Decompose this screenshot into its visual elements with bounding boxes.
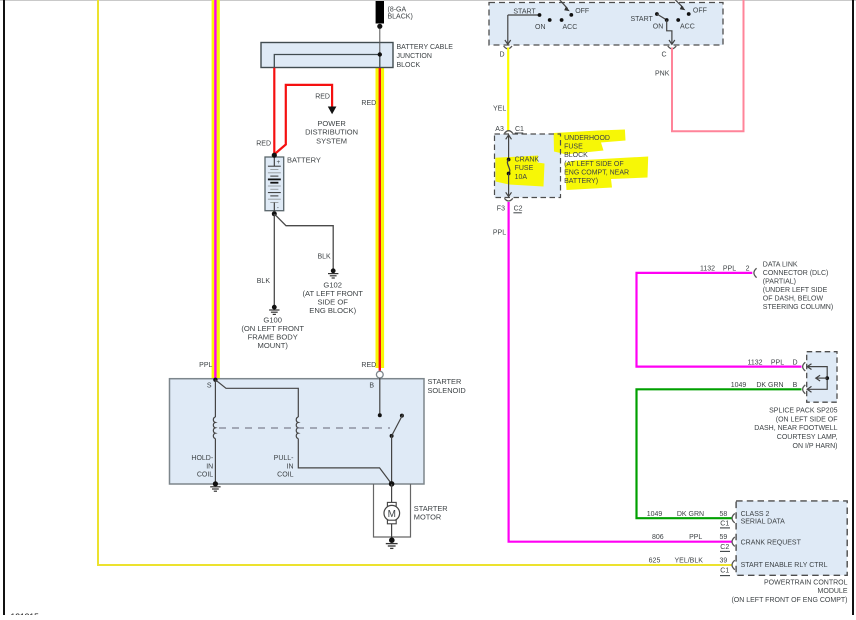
svg-text:STARTER: STARTER (428, 377, 462, 386)
hold-in coil (213, 417, 215, 439)
DLC connector arc (754, 268, 757, 277)
svg-text:START: START (513, 9, 536, 16)
splice pack internal bus (808, 367, 828, 390)
svg-text:2: 2 (746, 266, 750, 273)
wire YEL/BLK 625 from off-page (left vertical + bottom run) (98, 0, 732, 565)
svg-text:MODULE: MODULE (818, 588, 848, 595)
junction dot on bus (378, 52, 382, 56)
svg-text:DISTRIBUTION: DISTRIBUTION (305, 128, 358, 137)
svg-text:PULL-: PULL- (274, 455, 295, 462)
svg-text:ENG BLOCK): ENG BLOCK) (309, 306, 356, 315)
svg-text:POWER: POWER (317, 119, 346, 128)
svg-text:STEERING COLUMN): STEERING COLUMN) (763, 304, 833, 311)
svg-text:59: 59 (720, 534, 728, 541)
PCM pin 39 connector arc (732, 560, 735, 569)
wire hold-in coil to ground (214, 439, 216, 484)
ground G100 (269, 305, 279, 315)
ignition switch left section (505, 0, 573, 44)
svg-text:HOLD-: HOLD- (191, 455, 213, 462)
wire BLK battery to G100 (273, 214, 275, 305)
connector arc above fuse block (C1) (504, 131, 512, 134)
svg-text:OF DASH, BELOW: OF DASH, BELOW (763, 296, 824, 303)
starter solenoid box (170, 379, 425, 484)
svg-text:CONNECTOR (DLC): CONNECTOR (DLC) (763, 270, 829, 277)
wire RED branch to power distribution (275, 85, 332, 154)
splice connector arc pin B (803, 385, 806, 394)
svg-text:MOUNT): MOUNT) (258, 341, 289, 350)
highlight blob over CRANK FUSE 10A (495, 156, 544, 187)
arrow to power distribution system (328, 107, 337, 115)
ignition switch block (489, 3, 723, 46)
splice center tap (816, 375, 829, 381)
PCM pin 58 connector arc (732, 514, 735, 523)
motor ground symbol (386, 544, 398, 549)
fixed contact dot (378, 413, 382, 417)
svg-text:COIL: COIL (197, 472, 213, 479)
svg-text:-: - (277, 205, 279, 212)
battery (265, 157, 284, 212)
underhood fuse block box border (495, 134, 561, 198)
svg-text:1132: 1132 (700, 266, 715, 273)
right page border (852, 0, 854, 615)
svg-text:ON: ON (653, 24, 664, 31)
svg-text:FUSE: FUSE (515, 165, 534, 172)
svg-text:D: D (499, 52, 504, 59)
svg-text:PPL: PPL (771, 359, 784, 366)
svg-text:39: 39 (720, 557, 728, 564)
svg-text:IN: IN (206, 463, 213, 470)
wire PPL 1132 DLC net (637, 273, 802, 367)
svg-text:+: + (277, 159, 281, 166)
splice connector arc pin D (803, 362, 806, 371)
svg-text:RED: RED (361, 100, 376, 107)
svg-text:POWERTRAIN CONTROL: POWERTRAIN CONTROL (764, 579, 848, 586)
PCM pin 59 connector arc (732, 537, 735, 546)
svg-text:S: S (207, 383, 212, 390)
svg-text:PNK: PNK (655, 71, 670, 78)
wire BLK battery to G102 (275, 214, 334, 268)
ring terminal at solenoid B (376, 371, 383, 378)
wire pivot to bottom junction (391, 436, 393, 484)
svg-text:B: B (793, 382, 798, 389)
solenoid S terminal dot (213, 378, 217, 382)
svg-text:M: M (388, 509, 396, 520)
svg-text:PPL: PPL (723, 266, 736, 273)
svg-text:RED: RED (315, 93, 330, 100)
svg-text:ON I/P HARN): ON I/P HARN) (793, 443, 838, 450)
solenoid bottom junction dot (389, 481, 395, 487)
battery positive terminal dot (272, 153, 277, 158)
splice arrow pin D (807, 364, 811, 370)
wire RED highlighted (junction block to solenoid B) (379, 68, 381, 371)
svg-text:START: START (631, 16, 654, 23)
svg-text:(ON LEFT FRONT OF ENG COMPT): (ON LEFT FRONT OF ENG COMPT) (731, 597, 847, 604)
junction block internal bus (274, 55, 380, 68)
svg-text:C2: C2 (720, 544, 729, 551)
svg-text:CRANK: CRANK (515, 156, 540, 163)
ignition switch right section (655, 0, 691, 44)
svg-text:1049: 1049 (647, 511, 663, 518)
left page border (3, 0, 5, 615)
wire PPL fuse to PCM crank request (509, 202, 732, 542)
svg-text:CLASS 2: CLASS 2 (741, 511, 770, 518)
battery cable junction block (261, 43, 393, 68)
underhood fuse block box fill (495, 134, 561, 198)
svg-text:START ENABLE RLY CTRL: START ENABLE RLY CTRL (741, 562, 828, 569)
wire B post to fixed contact (379, 378, 381, 415)
highlight blob over location label (565, 157, 649, 191)
svg-text:C1: C1 (720, 520, 729, 527)
svg-text:(UNDER LEFT SIDE: (UNDER LEFT SIDE (763, 287, 828, 294)
svg-text:IN: IN (287, 463, 294, 470)
wire PNK ignition C off-page (672, 0, 744, 131)
svg-text:RED: RED (361, 362, 376, 369)
svg-text:58: 58 (720, 511, 728, 518)
svg-text:RED: RED (256, 141, 271, 148)
motor ground dot (389, 537, 395, 543)
svg-text:DATA LINK: DATA LINK (763, 262, 798, 269)
8-GA cable terminal dot (377, 24, 382, 29)
svg-text:BLACK): BLACK) (388, 14, 413, 21)
svg-text:ACC: ACC (680, 24, 695, 31)
svg-text:BATTERY CABLE: BATTERY CABLE (397, 44, 454, 51)
svg-text:1132: 1132 (747, 359, 762, 366)
svg-text:(ON LEFT SIDE OF: (ON LEFT SIDE OF (776, 416, 838, 423)
wire PPL highlighted (to solenoid S) (214, 0, 216, 380)
highlighter band over RED wire (376, 68, 385, 368)
svg-text:(AT LEFT SIDE OF: (AT LEFT SIDE OF (564, 161, 624, 168)
battery negative terminal dot (272, 211, 277, 216)
svg-text:PPL: PPL (689, 534, 702, 541)
svg-text:(PARTIAL): (PARTIAL) (763, 279, 796, 286)
svg-text:(8-GA: (8-GA (388, 7, 407, 14)
svg-text:10A: 10A (515, 174, 528, 181)
svg-text:PPL: PPL (199, 362, 212, 369)
starter motor M (384, 502, 400, 523)
svg-text:DASH, NEAR FOOTWELL: DASH, NEAR FOOTWELL (754, 425, 837, 432)
svg-text:BLOCK: BLOCK (397, 62, 421, 69)
svg-text:D: D (792, 359, 797, 366)
PCM box (736, 501, 847, 575)
svg-text:DK GRN: DK GRN (677, 511, 704, 518)
svg-text:F3: F3 (497, 206, 505, 213)
svg-text:COIL: COIL (277, 472, 293, 479)
connector arc below fuse block (C2) (504, 198, 512, 201)
splice pack SP205 box (807, 352, 837, 403)
starter motor bracket (374, 484, 411, 537)
svg-text:SERIAL DATA: SERIAL DATA (741, 519, 786, 526)
svg-text:C1: C1 (515, 126, 524, 133)
svg-text:ENG COMPT, NEAR: ENG COMPT, NEAR (564, 169, 629, 176)
svg-text:OFF: OFF (575, 8, 589, 15)
svg-text:YEL: YEL (493, 106, 506, 113)
svg-text:BLK: BLK (257, 278, 271, 285)
wire pull-in coil to contact (298, 439, 391, 484)
svg-text:MOTOR: MOTOR (414, 512, 441, 521)
ground G102 (328, 268, 338, 278)
top hairline border (0, 0, 856, 1)
pull-in coil (296, 417, 298, 439)
switch lever arm (392, 415, 403, 436)
svg-text:C1: C1 (720, 568, 729, 575)
svg-text:COURTESY LAMP,: COURTESY LAMP, (777, 434, 838, 441)
wire S to hold-in coil (214, 380, 216, 417)
svg-text:A3: A3 (495, 126, 504, 133)
splice arrow pin B (807, 386, 811, 392)
svg-text:1049: 1049 (731, 382, 747, 389)
svg-text:C: C (661, 52, 666, 59)
wire junction to motor (391, 484, 393, 502)
svg-text:UNDERHOOD: UNDERHOOD (564, 135, 610, 142)
svg-text:625: 625 (649, 557, 661, 564)
svg-text:SOLENOID: SOLENOID (428, 386, 466, 395)
svg-text:FUSE: FUSE (564, 144, 583, 151)
svg-text:BATTERY: BATTERY (287, 155, 321, 164)
svg-text:B: B (369, 383, 374, 390)
hold-in ground symbol (210, 487, 220, 491)
plunger dashed linkage (219, 427, 390, 429)
svg-text:ON: ON (535, 24, 546, 31)
switch pivot dot (390, 434, 394, 438)
svg-text:CRANK REQUEST: CRANK REQUEST (741, 539, 802, 546)
svg-text:806: 806 (652, 534, 664, 541)
svg-text:SPLICE PACK SP205: SPLICE PACK SP205 (769, 408, 837, 415)
svg-text:PPL: PPL (493, 229, 506, 236)
svg-text:BLK: BLK (317, 254, 331, 261)
svg-text:YEL/BLK: YEL/BLK (674, 557, 703, 564)
junction block bus continuation to bottom (379, 55, 381, 68)
svg-text:BLOCK: BLOCK (564, 152, 588, 159)
svg-text:DK GRN: DK GRN (756, 382, 783, 389)
svg-text:BATTERY): BATTERY) (564, 178, 598, 185)
highlighter band over PPL wire (212, 0, 220, 378)
svg-text:ACC: ACC (563, 24, 578, 31)
svg-text:JUNCTION: JUNCTION (397, 53, 432, 60)
wire YEL ignition D to fuse block (507, 48, 509, 132)
svg-text:C2: C2 (514, 206, 523, 213)
wire from 8-GA cable into junction block (379, 29, 381, 55)
highlight blob over UNDERHOOD FUSE label (554, 130, 626, 155)
wire DK GRN 1049 splice to PCM (637, 389, 802, 518)
connector pin D arc (504, 46, 512, 49)
moving contact dot (400, 414, 404, 418)
hold-in coil ground dot (213, 481, 218, 486)
wire motor to ground (391, 524, 393, 538)
svg-text:OFF: OFF (693, 8, 707, 15)
svg-text:121215: 121215 (11, 611, 40, 615)
8-GA battery cable bar (376, 1, 384, 24)
wire S to pull-in coil (215, 380, 298, 417)
svg-text:SYSTEM: SYSTEM (316, 137, 347, 146)
fuse element (506, 135, 512, 197)
connector pin C arc (668, 46, 676, 49)
wire RED junction block to battery (273, 68, 275, 155)
